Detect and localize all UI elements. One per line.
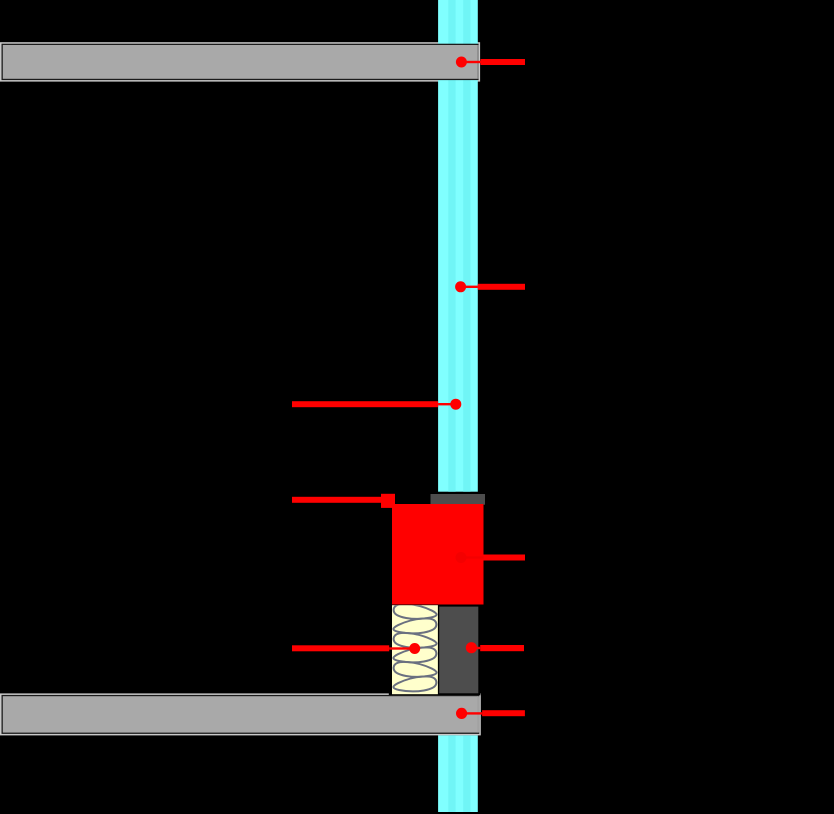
leader 6: insulation callout (left) [292,643,420,654]
fire-stop red block [392,504,484,605]
upper floor slab [2,44,479,80]
glass curtain wall lower pane [438,735,478,812]
leader 3: glass bottom callout (left) [292,399,461,410]
upper floor slab light halo [0,42,480,81]
leader 8: lower slab callout [456,708,525,719]
leader 4: mullion anchor callout with arrow block [292,494,395,508]
lower floor slab [2,695,480,734]
leader 1: upper slab callout [456,57,525,68]
mullion cap plate [431,494,486,505]
leader 7: spandrel panel callout [466,642,524,653]
leader 5: fire-stop callout [456,552,526,563]
insulation block [392,602,438,694]
lower floor slab light halo [0,693,481,735]
leader 2: glass callout [455,281,525,292]
black gap over halo beneath insulation and panel [389,693,481,695]
spandrel dark panel [439,607,478,694]
glass curtain wall upper pane [438,0,478,492]
